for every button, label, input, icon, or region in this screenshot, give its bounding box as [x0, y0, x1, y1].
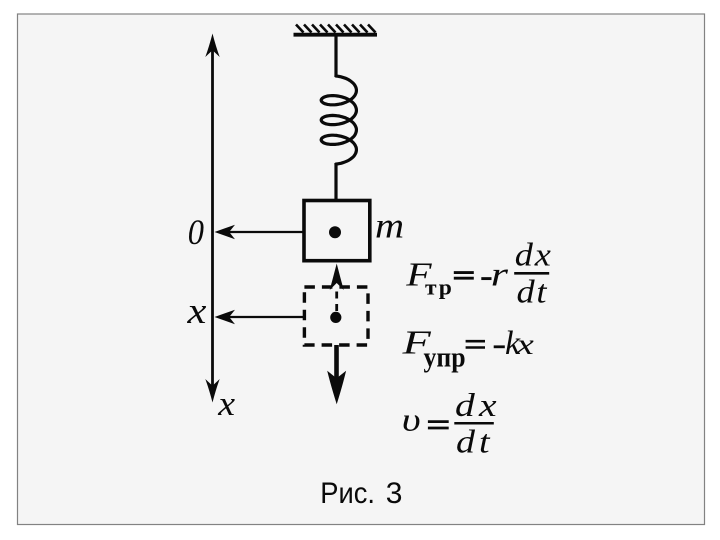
ceiling line	[294, 33, 378, 37]
arrow displaced block to axis at x	[229, 316, 304, 318]
minus sign	[494, 345, 505, 348]
wire ceiling to spring	[334, 35, 337, 77]
weight-force arrowhead	[327, 371, 346, 404]
restoring-force arrowhead	[330, 264, 344, 291]
svg-text:dx: dx	[515, 236, 553, 273]
svg-text:Рис.: Рис.	[320, 477, 375, 510]
minus sign	[481, 277, 491, 280]
dashed restoring-force arrow shaft	[335, 288, 338, 311]
formula v = dx/dt	[402, 387, 501, 460]
svg-text:0: 0	[188, 212, 204, 252]
weight-force arrow shaft	[334, 345, 339, 380]
svg-text:dx: dx	[455, 387, 501, 423]
x-axis arrowhead top	[205, 34, 219, 58]
fraction bar	[514, 272, 549, 275]
mass block	[304, 201, 370, 261]
svg-text:m: m	[375, 207, 404, 247]
spring	[321, 76, 356, 164]
svg-text:dt: dt	[517, 273, 549, 310]
displaced center dot	[330, 312, 341, 323]
svg-text:3: 3	[386, 477, 403, 510]
fraction bar	[454, 422, 494, 425]
svg-text:dt: dt	[456, 423, 494, 460]
arrow mass to axis at 0	[229, 231, 304, 233]
formula F_tr = -r dx/dt	[405, 236, 552, 310]
ceiling hatching	[296, 25, 376, 33]
x-axis line	[211, 50, 214, 388]
svg-text:тр: тр	[425, 275, 454, 299]
formula F_upr = -kx	[401, 323, 534, 372]
svg-text:υ: υ	[402, 402, 421, 438]
x-axis arrowhead bottom	[205, 379, 219, 403]
equals sign	[466, 340, 485, 343]
svg-text:x: x	[217, 384, 235, 422]
equals sign	[428, 420, 449, 423]
mass center dot	[329, 226, 341, 238]
svg-text:x: x	[186, 289, 206, 331]
svg-text:x: x	[515, 327, 534, 361]
equals sign	[454, 271, 474, 274]
wire spring to mass	[334, 163, 337, 199]
dashed displaced block	[304, 287, 368, 345]
svg-text:r: r	[491, 255, 509, 293]
svg-text:упр: упр	[424, 342, 466, 373]
